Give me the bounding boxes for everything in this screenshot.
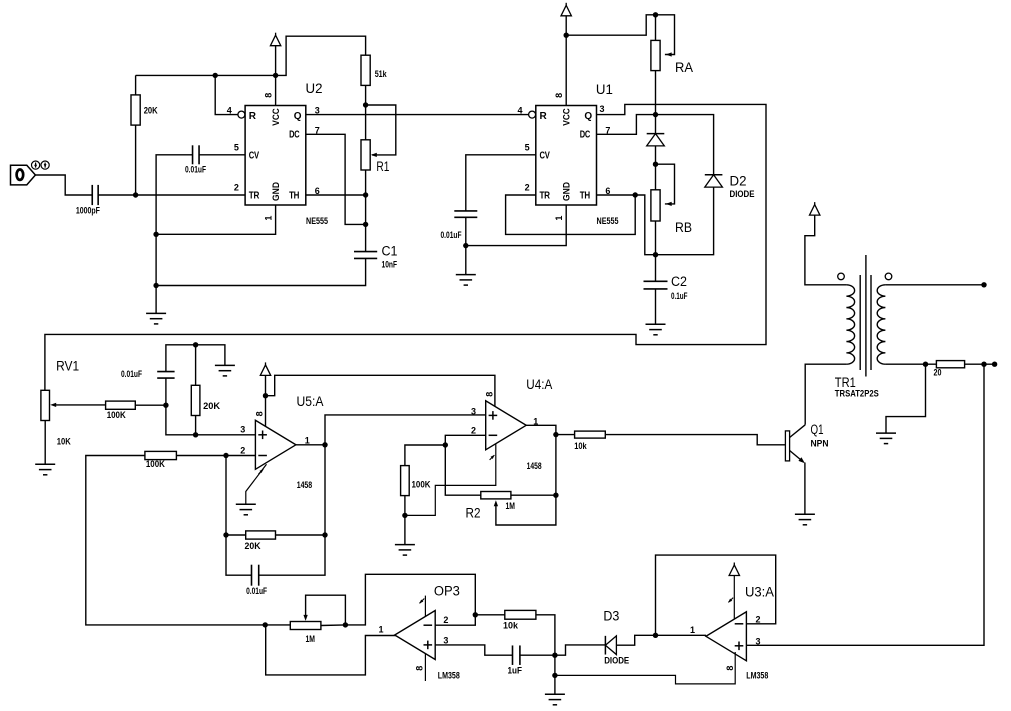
terminal node output — [992, 362, 997, 367]
node output branch — [981, 362, 986, 367]
svg-text:1: 1 — [554, 216, 564, 221]
wire C1 bottom to ground rail — [156, 258, 366, 285]
wire VCC to pin8 U5 — [265, 375, 267, 426]
input connector 0 — [11, 165, 36, 185]
wire 20K top to VCC rail — [135, 75, 137, 95]
svg-text:DC: DC — [580, 129, 590, 140]
wire RA top lead — [655, 15, 657, 41]
svg-text:LM358: LM358 — [746, 671, 768, 681]
TR1 primary polarity dot — [838, 273, 845, 280]
IC U2 NE555 — [245, 106, 306, 206]
pin 4 inversion bubble U2 — [238, 111, 245, 118]
svg-text:NE555: NE555 — [306, 216, 328, 226]
svg-text:R: R — [249, 111, 257, 122]
svg-text:0.1uF: 0.1uF — [671, 291, 688, 301]
ground below U5 — [236, 503, 256, 505]
svg-text:1: 1 — [379, 625, 384, 635]
op-amp OP3 — [395, 611, 436, 660]
wire VCC rail to RA — [566, 15, 674, 55]
ground below C2 — [646, 323, 666, 325]
wire Q pin3 U1 feedback loop to RV1 — [45, 104, 766, 390]
svg-text:TH: TH — [580, 191, 590, 202]
svg-text:1M: 1M — [306, 634, 316, 644]
node gnd rail / C1 — [153, 283, 158, 288]
svg-text:3: 3 — [443, 636, 448, 646]
power VCC arrow U5 — [260, 365, 270, 376]
wire 10k to base Q1 — [605, 435, 785, 445]
svg-text:3: 3 — [471, 407, 476, 417]
node rail/VCC U2 — [273, 73, 278, 78]
svg-text:0.01uF: 0.01uF — [441, 230, 462, 240]
capacitor C2 0.1uF — [644, 280, 668, 282]
svg-text:1M: 1M — [506, 501, 516, 511]
svg-text:8: 8 — [264, 93, 274, 98]
potentiometer RA — [651, 40, 660, 70]
wire 100K left to bottom loop — [86, 456, 265, 625]
wire TH node down to C2 node — [635, 195, 655, 255]
svg-text:CV: CV — [249, 150, 260, 161]
resistor 100K from OP3 feedback — [145, 451, 177, 459]
resistor 20K at U5 input — [191, 385, 200, 415]
pin 4 stub OP3 — [424, 596, 426, 617]
wire VCC rail to U4 pin8 — [266, 375, 495, 406]
wire emitter to ground — [804, 463, 806, 515]
svg-text:U1: U1 — [596, 82, 613, 97]
wire node to pin3 U5 — [166, 405, 256, 435]
svg-text:TH: TH — [289, 191, 299, 202]
svg-text:Q: Q — [294, 111, 302, 122]
svg-text:2: 2 — [240, 446, 245, 456]
node feedback left — [223, 532, 228, 537]
svg-text:1000pF: 1000pF — [76, 206, 100, 217]
wire 10k left to U4 output node — [556, 434, 575, 436]
wire secondary top to terminal — [885, 284, 984, 286]
svg-text:RV1: RV1 — [56, 359, 79, 374]
wire 1M wiper loop — [306, 595, 346, 625]
wire VCC arrow to pin8 U2 — [275, 46, 277, 106]
svg-text:2: 2 — [756, 614, 761, 624]
ground below TR1 — [876, 432, 896, 434]
ground below U2 — [146, 312, 166, 314]
TR1 secondary polarity dot — [885, 273, 892, 280]
svg-text:Q1: Q1 — [811, 422, 824, 437]
node R1/TH — [363, 192, 368, 197]
svg-text:R: R — [540, 111, 548, 122]
wire CV cap to pin5 U2 — [199, 154, 245, 156]
diode D2 — [705, 174, 723, 176]
svg-text:CV: CV — [540, 150, 551, 161]
wire ground branch TR1 — [886, 364, 926, 433]
node output U5 — [322, 442, 327, 447]
svg-text:8: 8 — [254, 411, 264, 416]
pin 4 inversion bubble U1 — [529, 111, 536, 118]
svg-text:TR: TR — [249, 191, 260, 202]
resistor 20K feedback U5 — [246, 531, 276, 539]
wire GND pin1 U1 — [466, 205, 566, 246]
wire C2 to ground — [655, 289, 657, 324]
potentiometer 1M — [290, 622, 321, 630]
wire R2 wiper loop — [496, 495, 556, 525]
svg-text:RA: RA — [675, 60, 693, 75]
node gnd rail / pin1 — [153, 232, 158, 237]
wire 20K bottom — [195, 416, 197, 435]
svg-text:DIODE: DIODE — [730, 189, 755, 199]
op-amp U3:A — [706, 612, 747, 661]
svg-text:5: 5 — [234, 143, 239, 153]
wire 20K feedback leads — [226, 534, 246, 536]
wire U3 pin8 to node — [555, 652, 735, 684]
node RA top — [653, 12, 658, 17]
svg-text:RB: RB — [675, 220, 692, 235]
svg-text:100K: 100K — [107, 410, 126, 420]
node output/R2 — [553, 493, 558, 498]
node pin2 U4 — [443, 442, 448, 447]
svg-text:20: 20 — [934, 368, 942, 378]
svg-text:TRSAT2P2S: TRSAT2P2S — [835, 389, 879, 399]
wire 1000pF to TR pin2 of U2 — [98, 194, 245, 196]
svg-text:10nF: 10nF — [382, 260, 398, 270]
wire CV cap left to ground rail — [156, 155, 193, 314]
diode at RA/RB node — [647, 133, 665, 135]
wire right side down to U3 pin3 — [746, 364, 984, 645]
wire R2 right — [511, 494, 556, 496]
transistor Q1 NPN — [785, 431, 789, 461]
svg-text:1458: 1458 — [527, 461, 542, 471]
wire RV1 wiper to 100K — [55, 404, 106, 406]
wire VCC arrow to pin8 U1 — [565, 16, 567, 106]
svg-text:2: 2 — [234, 183, 239, 193]
pin 4 ground stub U5 — [246, 464, 267, 504]
wire U5 feedback vertical — [324, 445, 326, 535]
svg-text:D2: D2 — [730, 174, 747, 189]
power VCC arrow U3 — [729, 565, 739, 576]
wire Q pin3 U2 to R pin4 U1 — [306, 114, 529, 116]
node 100K/cap/pin3 wire — [163, 403, 168, 408]
wire VCC to U3 — [733, 576, 735, 619]
wire GND pin1 U2 — [156, 205, 276, 234]
wire node to D2 — [656, 115, 714, 175]
wire DC pin7 U2 — [306, 134, 366, 224]
node VCC U5/U4 rail — [263, 393, 268, 398]
svg-text:10K: 10K — [57, 437, 71, 447]
ground below RV1 — [35, 463, 55, 465]
capacitor C1 10nF — [354, 251, 377, 253]
ground below Q1 — [795, 513, 815, 515]
node pin2 U5 — [223, 453, 228, 458]
svg-text:20K: 20K — [245, 541, 261, 551]
node feedback right — [322, 532, 327, 537]
pin 4 route U4 — [405, 444, 496, 515]
node junction 1000pF/20K/TR — [133, 192, 138, 197]
svg-text:C2: C2 — [671, 274, 687, 289]
node 20K/pin3 wire — [193, 432, 198, 437]
node 1M left — [263, 622, 268, 627]
pin 8 stub OP3 — [424, 654, 426, 681]
wire VCC to primary top — [805, 215, 847, 285]
node RA/DC/Q1 diode — [653, 112, 658, 117]
svg-text:100K: 100K — [412, 480, 431, 490]
node rail/R4 — [213, 73, 218, 78]
svg-text:1uF: 1uF — [508, 666, 523, 676]
wire 20 ohm right to terminal — [965, 363, 995, 365]
svg-text:4: 4 — [518, 105, 523, 115]
wire node to 100K — [405, 445, 445, 466]
node output/10k — [553, 432, 558, 437]
svg-text:U2: U2 — [306, 81, 323, 96]
wire cap top to 20K and ground — [166, 345, 225, 372]
potentiometer R2 — [481, 492, 511, 499]
node R1/DC — [363, 222, 368, 227]
terminal node secondary top — [981, 282, 986, 287]
ground below node X — [545, 693, 565, 695]
capacitor 0.01uF at CV U1 — [454, 210, 477, 212]
wire node up to 0.01uF cap — [165, 378, 167, 403]
ground below U1 CV cap — [456, 274, 476, 276]
wire R1 bottom to C1 — [365, 170, 367, 252]
node 100K/pin4 route — [402, 513, 407, 518]
node 1M right — [343, 622, 348, 627]
capacitor 0.01uF at U5 input — [157, 371, 174, 373]
node VCC rail U1 — [564, 33, 569, 38]
potentiometer RV1 — [41, 390, 50, 420]
potentiometer R1 — [361, 140, 370, 170]
wire OP3 pin3 to 1uF — [435, 645, 512, 655]
svg-text:0.01uF: 0.01uF — [121, 369, 142, 379]
svg-text:GND: GND — [562, 182, 573, 201]
svg-text:0.01uF: 0.01uF — [246, 586, 267, 596]
wire diode anode to RB — [655, 146, 657, 190]
svg-text:VCC: VCC — [562, 108, 573, 126]
node X OP3 — [552, 653, 557, 658]
wire 1uF right to node — [520, 654, 555, 656]
wire RB bottom to C2 node — [655, 221, 657, 281]
svg-text:C1: C1 — [382, 244, 398, 259]
wire RA bottom to diode — [655, 71, 657, 134]
svg-text:2: 2 — [443, 615, 448, 625]
resistor 20 ohm — [936, 361, 964, 368]
svg-text:3: 3 — [240, 425, 245, 435]
node TH/TR U1 — [633, 192, 638, 197]
wire OP3 pin2 — [435, 615, 475, 625]
node U3 output — [653, 633, 658, 638]
svg-text:NPN: NPN — [811, 439, 829, 449]
resistor 10k OP3 — [505, 610, 536, 619]
wire collector to transformer primary — [805, 364, 846, 425]
svg-text:8: 8 — [725, 666, 735, 671]
wire CV pin5 U1 to cap — [466, 155, 536, 211]
resistor 10k base Q1 — [575, 431, 606, 438]
svg-text:10k: 10k — [574, 441, 587, 451]
node cap/20K top — [193, 342, 198, 347]
wire 20K top lead — [195, 345, 197, 386]
wire node X to D3 — [555, 645, 606, 655]
svg-text:D3: D3 — [603, 609, 619, 624]
wire 51k bottom to R1 top — [365, 85, 367, 139]
wire feedback cap loop — [226, 535, 252, 575]
power VCC arrow at TR1 — [810, 205, 820, 216]
svg-text:OP3: OP3 — [434, 584, 460, 599]
wire U5 output to U4 pin3 — [325, 415, 486, 445]
wire 1M right — [321, 624, 346, 627]
svg-text:1: 1 — [264, 216, 274, 221]
resistor 100K to ground U4 — [401, 466, 410, 496]
svg-text:1458: 1458 — [297, 480, 313, 490]
svg-text:20K: 20K — [144, 106, 158, 116]
node diode/RB/wiper — [653, 162, 658, 167]
power VCC arrow U2 — [270, 35, 280, 46]
svg-text:U5:A: U5:A — [297, 394, 324, 409]
node 51k/R1/wiper — [363, 102, 368, 107]
wire R1 wiper loop — [366, 105, 396, 155]
op-amp U5:A — [255, 420, 296, 469]
svg-text:DIODE: DIODE — [604, 656, 629, 666]
ground below 100K U4 — [395, 544, 415, 546]
wire R2 left to pin2 node — [445, 445, 481, 495]
IC U1 NE555 — [536, 106, 597, 206]
svg-text:3: 3 — [756, 636, 761, 646]
svg-text:0.01uF: 0.01uF — [185, 165, 206, 175]
wire 100K bottom to ground — [404, 496, 406, 545]
wire cap to ground U1 — [465, 217, 467, 274]
wire D3 to U3 output node — [616, 635, 655, 645]
node RB/C2/D2 — [653, 252, 658, 257]
wire U5 output — [296, 444, 325, 446]
capacitor 1uF — [512, 645, 514, 665]
svg-text:LM358: LM358 — [438, 671, 460, 681]
capacitor 1000pF — [91, 185, 93, 205]
transformer TR1 core — [859, 275, 861, 370]
wire input to C 1000pF — [35, 175, 92, 195]
svg-text:20K: 20K — [203, 401, 221, 411]
svg-text:GND: GND — [271, 182, 282, 201]
wire bottom loop to 1M — [265, 624, 290, 626]
svg-text:2: 2 — [471, 426, 476, 436]
wire RV1 bottom to ground — [44, 421, 46, 465]
wire 100K to pin2 U5 — [176, 455, 255, 457]
diode D3 — [604, 636, 606, 655]
svg-text:3: 3 — [600, 104, 605, 114]
svg-text:R1: R1 — [376, 159, 389, 174]
wire VCC rail to 51k — [136, 36, 366, 75]
op-amp U4:A — [486, 401, 527, 450]
wire 10k leads OP3 — [475, 614, 505, 616]
svg-text:8: 8 — [554, 93, 564, 98]
node OP3 pin2/10k — [473, 612, 478, 617]
wire reset pin4 U2 — [215, 75, 238, 114]
transformer TR1 secondary winding — [877, 285, 885, 364]
wire U3 feedback box to pin2 — [656, 555, 776, 635]
wire 20K bottom to node — [135, 125, 137, 195]
svg-text:VCC: VCC — [271, 108, 282, 126]
power VCC arrow U1 — [561, 5, 571, 16]
wire 1M node to OP3 pin2 feedback — [345, 574, 475, 625]
svg-text:2: 2 — [525, 183, 530, 193]
resistor 20K vertical — [131, 95, 140, 125]
wire TH pin6 U1 — [597, 194, 636, 196]
svg-text:8: 8 — [485, 392, 495, 397]
svg-text:51k: 51k — [375, 69, 388, 79]
node secondary/ground branch — [923, 362, 928, 367]
wire 100K to node — [135, 404, 166, 406]
resistor 51k vertical — [361, 55, 370, 85]
wire RB wiper loop — [656, 164, 675, 204]
node cap/GND pin1 U1 — [463, 243, 468, 248]
svg-text:R2: R2 — [466, 506, 481, 521]
capacitor 0.01uF at CV U2 — [192, 145, 194, 164]
wire OP3 output loop — [266, 625, 396, 675]
wire U4 output — [526, 425, 556, 495]
resistor 100K to pin3 — [106, 401, 136, 409]
capacitor 0.01uF feedback U5 — [251, 565, 253, 586]
svg-text:1: 1 — [305, 435, 310, 445]
svg-text:NE555: NE555 — [597, 216, 619, 226]
potentiometer RB — [651, 190, 660, 221]
svg-text:1: 1 — [690, 625, 695, 635]
svg-text:DC: DC — [289, 129, 299, 140]
node ground branch — [552, 673, 557, 678]
svg-text:4: 4 — [227, 105, 232, 115]
wire pin2 node down — [225, 456, 227, 536]
svg-text:Q: Q — [584, 111, 592, 122]
transformer TR1 primary winding — [846, 285, 854, 364]
svg-text:10k: 10k — [503, 620, 519, 630]
wire D2 anode to C2 node — [656, 187, 714, 255]
ground right of 0.01uF — [215, 364, 235, 366]
wire TR pin2 U1 — [506, 195, 636, 234]
svg-text:5: 5 — [525, 143, 530, 153]
svg-text:100K: 100K — [146, 459, 165, 469]
svg-text:U4:A: U4:A — [526, 377, 552, 392]
wire secondary bottom — [885, 363, 936, 365]
wire node X down to ground — [554, 655, 556, 694]
wire node to U3 pin1 — [656, 634, 707, 636]
wire TH pin6 U2 — [306, 194, 366, 196]
svg-text:TR: TR — [540, 191, 551, 202]
wire DC pin7 U1 — [597, 115, 656, 135]
svg-text:8: 8 — [415, 666, 425, 671]
wire pin2 U4 — [445, 435, 485, 445]
svg-text:U3:A: U3:A — [745, 585, 774, 600]
